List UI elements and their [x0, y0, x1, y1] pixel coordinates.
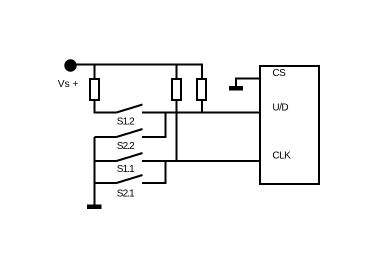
wire S2.1 left stub: [95, 182, 117, 184]
svg-text:S1.1: S1.1: [117, 164, 135, 175]
wire R2 top stub: [176, 65, 178, 80]
wire CS ground stub: [236, 79, 260, 87]
switch S2.2 blade: [117, 129, 143, 137]
wire left ground bus: [94, 137, 96, 205]
resistor R1: [90, 79, 99, 100]
wire R1 bottom to S1.2 left contact: [95, 100, 117, 113]
svg-text:S2.1: S2.1: [117, 188, 135, 199]
node Vs terminal dot: [64, 59, 76, 71]
op-amp/IC box U1: [260, 66, 319, 184]
svg-text:Vs +: Vs +: [58, 79, 79, 90]
switch S1.1 blade: [117, 153, 143, 161]
resistor R2: [172, 79, 181, 100]
svg-text:CLK: CLK: [272, 151, 291, 162]
wire top supply bus: [71, 65, 203, 80]
switch S2.1 blade: [117, 175, 143, 183]
wire S2.2 right contact riser to U/D: [142, 113, 166, 138]
wire S2.1 right contact riser to CLK: [142, 161, 166, 183]
svg-text:CS: CS: [272, 68, 286, 79]
wire R2 bottom to CLK line: [176, 100, 178, 161]
ground left (supply return): [87, 205, 102, 210]
wire U/D line to IC: [142, 112, 260, 114]
svg-text:S1.2: S1.2: [117, 117, 135, 128]
resistor R3: [197, 79, 206, 100]
svg-text:U/D: U/D: [272, 103, 288, 114]
switch S1.2 blade: [117, 105, 143, 113]
wire R1 top stub: [94, 65, 96, 80]
wire CLK line to IC: [142, 160, 260, 162]
wire S2.2 left stub: [95, 136, 117, 138]
wire S1.1 left stub: [95, 160, 117, 162]
wire R3 bottom to U/D line: [201, 100, 203, 113]
ground at CS pin: [229, 86, 243, 91]
svg-text:S2.2: S2.2: [117, 141, 135, 152]
